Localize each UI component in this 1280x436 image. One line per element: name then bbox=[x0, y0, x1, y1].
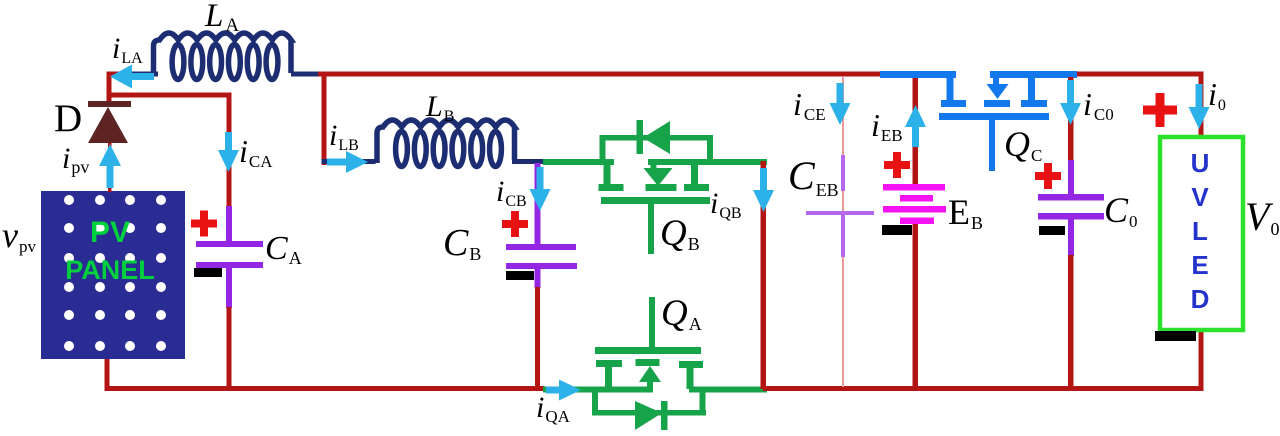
wire: LB input navy stub bbox=[322, 159, 376, 164]
arrow iCB bbox=[530, 167, 551, 211]
svg-text:ipv: ipv bbox=[62, 142, 89, 177]
svg-text:PANEL: PANEL bbox=[65, 255, 155, 285]
battery EB top lead bbox=[913, 77, 919, 186]
diode D bbox=[88, 101, 131, 192]
wire: CA top lead red vertical bbox=[227, 93, 232, 208]
wire: top rail left stub red bbox=[107, 72, 131, 77]
svg-text:E: E bbox=[1191, 250, 1208, 280]
arrow iC0 bbox=[1060, 80, 1081, 125]
minus sign CB bbox=[506, 271, 534, 280]
svg-text:QC: QC bbox=[1004, 124, 1042, 165]
transistor QB (with body diode) bbox=[599, 120, 714, 254]
minus sign C0 bbox=[1039, 226, 1065, 235]
plus sign UVLED bbox=[1143, 93, 1177, 127]
wire: UVLED bottom lead bbox=[1199, 330, 1204, 391]
arrow iEB bbox=[905, 105, 926, 147]
capacitor CB bbox=[506, 163, 577, 288]
wire: QB output to bottom rail (red vertical) bbox=[761, 161, 767, 389]
arrow iCA bbox=[218, 132, 239, 172]
wire: bottom rail red left bbox=[105, 386, 545, 391]
wire: QB drain green segment bbox=[648, 159, 767, 165]
svg-text:vpv: vpv bbox=[2, 215, 36, 256]
wire: PV panel bottom lead bbox=[105, 355, 110, 391]
wire: bottom rail green segment A (QA source side) bbox=[543, 387, 653, 393]
capacitor CA bbox=[196, 206, 263, 308]
wire: bottom rail green segment B (QA drain side) bbox=[689, 387, 767, 393]
wire: C0 bottom lead red bbox=[1068, 255, 1074, 389]
minus sign CA bbox=[194, 268, 222, 277]
arrow iLA bbox=[110, 65, 154, 89]
plus sign C0 bbox=[1035, 163, 1061, 189]
wire: top rail blue left segment (QC source) bbox=[880, 71, 956, 78]
wire: C0 top lead red bbox=[1068, 77, 1074, 161]
svg-text:CB: CB bbox=[443, 222, 481, 264]
svg-text:iQB: iQB bbox=[710, 187, 742, 222]
svg-text:U: U bbox=[1191, 148, 1210, 178]
plus sign EB bbox=[884, 152, 910, 178]
svg-text:iCB: iCB bbox=[496, 175, 527, 210]
svg-text:QA: QA bbox=[661, 293, 702, 334]
arrow iQB bbox=[753, 168, 774, 212]
PV panel bbox=[41, 191, 185, 359]
svg-text:iCE: iCE bbox=[793, 86, 826, 124]
inductor LB bbox=[377, 120, 515, 167]
wire: CA bottom lead red bbox=[227, 307, 232, 389]
wire: top rail blue right segment (QC drain) bbox=[990, 71, 1077, 78]
svg-text:EB: EB bbox=[948, 192, 983, 233]
capacitor CEB bbox=[806, 77, 874, 387]
svg-text:LB: LB bbox=[425, 90, 454, 125]
svg-text:i0: i0 bbox=[1208, 76, 1226, 114]
arrow ipv bbox=[99, 144, 121, 188]
minus sign UVLED bbox=[1155, 331, 1196, 341]
plus sign CA bbox=[191, 211, 217, 237]
UV LED bbox=[1160, 137, 1243, 330]
transistor QA (with body diode) bbox=[592, 297, 706, 430]
svg-text:L: L bbox=[1192, 216, 1208, 246]
wire: top rail to LB (red vertical) bbox=[322, 74, 327, 165]
arrow iQA bbox=[546, 380, 581, 401]
wire: top rail navy stub before LA bbox=[126, 72, 158, 77]
svg-text:iCA: iCA bbox=[239, 133, 273, 171]
svg-text:D: D bbox=[1191, 284, 1210, 314]
battery EB bottom lead bbox=[913, 222, 919, 389]
plus sign CB bbox=[502, 211, 528, 237]
wire: LB output navy stub bbox=[512, 159, 545, 164]
svg-text:LA: LA bbox=[204, 0, 239, 36]
svg-text:iLA: iLA bbox=[112, 32, 143, 67]
wire: top rail main red bbox=[318, 72, 882, 77]
svg-text:CEB: CEB bbox=[788, 153, 839, 200]
svg-text:iLB: iLB bbox=[329, 119, 359, 154]
wire: bottom rail red right bbox=[763, 386, 1203, 391]
svg-text:D: D bbox=[54, 97, 82, 140]
svg-text:V: V bbox=[1191, 182, 1209, 212]
wire: node LB/CB/QB green stub bbox=[543, 159, 614, 165]
wire: PV node to CA red horizontal bbox=[107, 93, 232, 98]
wire: diode top to top rail (red vertical) bbox=[107, 72, 112, 104]
arrow i0 bbox=[1189, 84, 1210, 129]
svg-text:V0: V0 bbox=[1245, 194, 1279, 239]
svg-text:PV: PV bbox=[90, 216, 130, 249]
arrow iLB bbox=[327, 151, 368, 173]
svg-text:iEB: iEB bbox=[871, 107, 903, 145]
transistor QC bbox=[939, 74, 1049, 171]
battery EB bbox=[883, 184, 946, 224]
wire: top rail navy stub after LA bbox=[291, 72, 322, 77]
capacitor C0 bbox=[1038, 160, 1104, 256]
svg-text:QB: QB bbox=[660, 213, 700, 254]
arrow iCE bbox=[830, 83, 851, 125]
wire: CB bottom lead red bbox=[535, 287, 540, 389]
minus sign EB bbox=[882, 225, 912, 235]
svg-text:iC0: iC0 bbox=[1083, 86, 1114, 124]
svg-text:CA: CA bbox=[265, 230, 302, 268]
wire: top rail red right of QC bbox=[1075, 72, 1203, 77]
inductor LA bbox=[154, 33, 292, 80]
wire: red vertical to UVLED top bbox=[1199, 72, 1204, 138]
svg-text:C0: C0 bbox=[1104, 190, 1138, 231]
